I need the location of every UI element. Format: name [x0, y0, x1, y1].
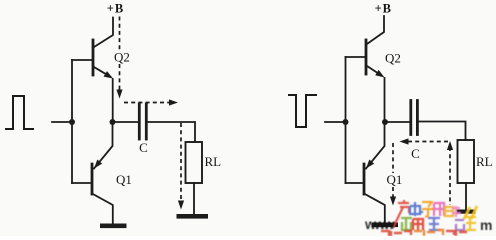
watermark glyph purple	[455, 220, 464, 230]
wire node to capacitor left	[113, 121, 138, 123]
current arrow dashed vertical from +B left	[119, 17, 121, 93]
svg-text:C: C	[411, 146, 420, 161]
wire RL to ground left	[193, 183, 195, 214]
wire base bus left	[71, 60, 73, 183]
current arrow dashed vertical through RL left	[180, 123, 182, 203]
resistor RL left	[186, 142, 203, 183]
ground under Q1 right	[372, 223, 398, 228]
capacitor C right	[411, 101, 418, 135]
watermark glyph red2	[413, 219, 423, 230]
svg-text:m: m	[480, 217, 492, 233]
watermark glyph green	[401, 218, 412, 230]
wire node to capacitor right	[385, 121, 410, 123]
wire input left	[52, 121, 72, 123]
watermark glyph yellow2	[465, 217, 476, 230]
svg-text:+B: +B	[107, 2, 124, 16]
wire input right	[325, 121, 346, 123]
watermark bottom fringe orange	[414, 230, 443, 236]
transistor Q2 right (NPN)	[346, 16, 385, 78]
svg-text:RL: RL	[476, 154, 493, 169]
input pulse symbol (positive) left	[6, 96, 33, 129]
watermark glyph dian blue	[410, 202, 423, 216]
svg-text:C: C	[139, 140, 148, 155]
current arrow dashed horizontal over capacitor left	[124, 102, 172, 104]
watermark glyph guang red with tail	[393, 200, 409, 228]
current arrow dashed vertical along RL right (pointing up)	[449, 147, 451, 205]
svg-text:www: www	[364, 216, 395, 232]
node input-base junction left	[69, 119, 75, 125]
svg-text:+B: +B	[375, 2, 392, 16]
wire Q2 emitter to output node left	[112, 79, 114, 122]
watermark slashes yellow	[464, 206, 477, 219]
watermark glyph cai magenta	[434, 203, 444, 216]
current arrow dashed horizontal under capacitor right (pointing left)	[405, 141, 448, 143]
svg-text:RL: RL	[205, 154, 222, 169]
wire base bus right	[345, 57, 347, 183]
node output junction left	[110, 119, 116, 125]
wire capacitor to RL corner right	[419, 122, 466, 141]
ground under RL right	[457, 210, 476, 214]
ground under RL left	[177, 214, 209, 219]
transistor Q2 left (NPN)	[72, 18, 113, 79]
node input-base junction right	[343, 119, 349, 125]
watermark glyph flower pink	[452, 206, 461, 217]
input pulse symbol (negative) right	[289, 95, 316, 127]
svg-text:Q2: Q2	[114, 50, 130, 65]
svg-text:Q2: Q2	[385, 51, 401, 66]
capacitor C left	[139, 104, 146, 139]
ground under Q1 left	[100, 224, 127, 229]
transistor Q1 left (PNP)	[72, 122, 113, 223]
svg-text:Q1: Q1	[387, 172, 403, 187]
watermark glyph box yellow-orange	[445, 207, 453, 216]
svg-text:Q1: Q1	[116, 172, 132, 187]
transistor Q1 right (PNP)	[346, 122, 385, 222]
resistor RL right	[458, 140, 475, 183]
wire capacitor to RL corner left	[148, 122, 195, 142]
wire Q2 emitter to output node right	[384, 78, 386, 122]
current arrow dashed vertical to Q1 right (pointing down)	[392, 143, 394, 200]
node output junction right	[382, 119, 388, 125]
watermark bottom fringe red right	[446, 230, 467, 236]
watermark glyph blue2	[428, 218, 440, 230]
watermark bottom fringe red left	[381, 231, 411, 236]
wire RL to ground right	[465, 183, 467, 210]
watermark glyph zi orange	[422, 202, 434, 217]
watermark colorful site logo bottom right	[364, 200, 492, 236]
